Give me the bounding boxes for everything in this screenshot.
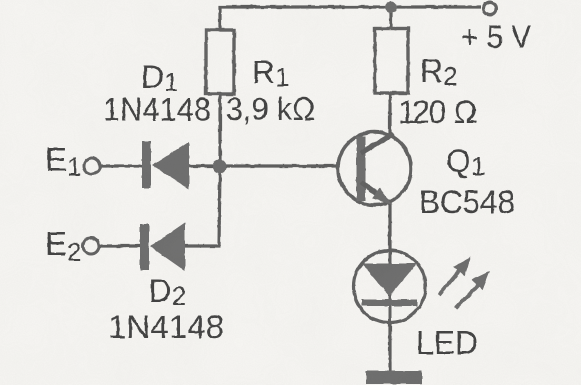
wire D1 anode to node A (188, 164, 219, 167)
resistor R2 (375, 29, 408, 94)
wire base of Q1 from node A (219, 164, 357, 167)
wire D2 anode to vertical (184, 244, 220, 247)
D2 cathode bar (140, 224, 149, 270)
terminal E2 (83, 238, 99, 254)
LED cathode bar (362, 300, 418, 307)
D2 anode triangle (150, 223, 185, 272)
wire R1 bottom to node A and down to D2 corner (219, 94, 220, 246)
node junction dot on top rail (385, 1, 397, 13)
terminal +5V (484, 2, 497, 15)
LED anode triangle (362, 264, 417, 297)
node A junction dot (213, 160, 227, 174)
D1 cathode bar (142, 141, 151, 188)
diode D2 (140, 223, 185, 272)
wire R2 to top rail (389, 7, 392, 27)
wire through LED (389, 251, 392, 322)
Q1 collector lead (361, 134, 393, 153)
wire emitter through LED to ground (388, 201, 391, 372)
terminal E1 (84, 158, 100, 174)
Q1 emitter arrowhead (372, 188, 393, 205)
LED D3 (354, 251, 426, 323)
LED light arrow 1 (439, 257, 471, 295)
diode D1 (142, 141, 189, 189)
D1 anode triangle (152, 142, 189, 190)
wire R2 to collector (388, 94, 391, 136)
wire E2 terminal to D2 (98, 244, 141, 247)
wire E1 terminal to D1 (99, 164, 143, 167)
wire top rail (220, 7, 481, 30)
LED body circle (354, 251, 426, 323)
ground (366, 371, 422, 384)
Q1 emitter lead (361, 182, 390, 203)
LED light arrow 2 (456, 271, 490, 308)
transistor Q1 (338, 132, 411, 205)
Q1 body circle (338, 132, 411, 205)
resistor R1 (206, 30, 234, 94)
Q1 base bar (357, 136, 366, 201)
